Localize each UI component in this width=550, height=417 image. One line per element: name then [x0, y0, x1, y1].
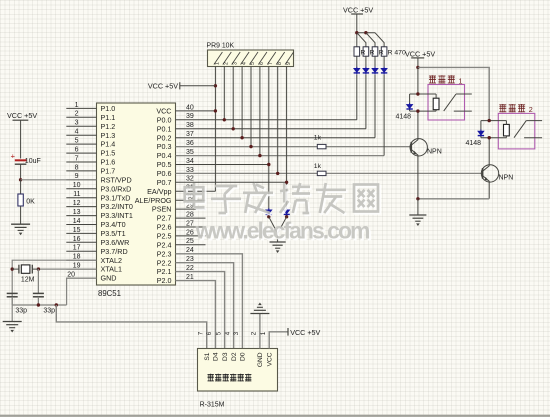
- svg-text:32: 32: [186, 176, 194, 183]
- wire pack pin4 vertical: [241, 67, 243, 138]
- svg-text:4: 4: [241, 62, 247, 65]
- svg-text:VCC +5V: VCC +5V: [343, 6, 373, 15]
- junction pack pin5: [249, 145, 252, 148]
- svg-text:ALE/PROG: ALE/PROG: [135, 196, 172, 205]
- svg-text:P2.5: P2.5: [157, 232, 172, 241]
- svg-text:VCC: VCC: [266, 352, 273, 366]
- wire pack pin1 / VCC / EA net vertical: [214, 67, 216, 192]
- svg-text:6: 6: [75, 147, 79, 154]
- svg-text:GND: GND: [257, 352, 264, 367]
- diode D5: [266, 208, 272, 216]
- resistor R4 label: [388, 50, 406, 57]
- wire pin31 EA/Vpp: [176, 190, 216, 192]
- svg-text:XTAL1: XTAL1: [101, 265, 122, 274]
- svg-text:38: 38: [186, 122, 194, 129]
- wire pin32 P0.7: [176, 181, 287, 183]
- resistor R7 label: [26, 198, 35, 205]
- resistor pack PR9 body: [208, 50, 294, 67]
- capacitor C3 label 10uF: [25, 158, 41, 165]
- svg-text:8: 8: [277, 62, 283, 65]
- diode D6: [283, 208, 289, 216]
- svg-text:5: 5: [215, 331, 222, 335]
- svg-text:VCC +5V: VCC +5V: [148, 81, 178, 90]
- svg-text:P1.0: P1.0: [101, 104, 116, 113]
- svg-text:9: 9: [286, 62, 292, 65]
- wire relay2 bottom rail: [481, 137, 507, 139]
- wire diode2 bottom lead: [480, 136, 482, 138]
- resistor R6 label 1k: [314, 163, 322, 170]
- svg-text:5: 5: [75, 138, 79, 145]
- wire R2 to LED2: [365, 56, 367, 68]
- wire pack pin7 vertical (P0.5 net): [268, 67, 270, 210]
- transistor Q2 collector: [483, 138, 490, 172]
- junction relay1 top: [416, 92, 419, 95]
- wire GND pin20 route: [67, 278, 97, 305]
- transistor Q1 circle: [410, 139, 427, 156]
- wire pin40 VCC: [176, 110, 216, 112]
- svg-text:P3.3/INT1: P3.3/INT1: [101, 211, 133, 220]
- svg-text:10uF: 10uF: [25, 158, 41, 165]
- wire pin34 P0.5: [176, 164, 269, 166]
- svg-text:2: 2: [529, 105, 533, 114]
- transistor Q1 base bar: [410, 142, 412, 153]
- svg-text:+: +: [11, 152, 16, 161]
- wire relay1 top rail: [410, 93, 437, 95]
- svg-text:2: 2: [251, 331, 258, 335]
- wire pin22 P2.1 to module D3: [176, 272, 225, 349]
- ground (reset): [11, 224, 30, 235]
- svg-text:16: 16: [73, 236, 81, 243]
- wire D6 to ground node: [278, 217, 287, 234]
- wire RST to pin9: [21, 179, 97, 181]
- svg-text:VCC: VCC: [156, 107, 171, 116]
- svg-text:17: 17: [73, 245, 81, 252]
- junction pack pin7: [267, 163, 270, 166]
- relay K1 coil: [433, 98, 439, 110]
- wire pack pin2 vertical: [223, 67, 225, 120]
- power port VCC +5V (module): [288, 328, 321, 337]
- ground (indicator diodes): [270, 242, 286, 253]
- relay K1 box: [428, 85, 465, 121]
- junction VCC label: [214, 84, 217, 87]
- wire diag to R3: [366, 33, 375, 47]
- junction emitters: [416, 197, 419, 200]
- svg-text:R-315M: R-315M: [200, 401, 225, 408]
- wire LED3 column down: [374, 75, 376, 138]
- svg-text:6: 6: [206, 331, 213, 335]
- wire VCC label to pack vertical: [180, 85, 216, 87]
- wire VCC stem to R1: [356, 14, 358, 47]
- svg-text:R: R: [370, 50, 375, 57]
- wire relay1 vertical: [417, 67, 419, 94]
- junction rail a: [355, 31, 358, 34]
- relay K2 coil: [504, 124, 510, 135]
- svg-text:www.elecfans.com: www.elecfans.com: [195, 218, 370, 244]
- svg-text:9: 9: [75, 173, 79, 180]
- svg-text:VCC +5V: VCC +5V: [290, 328, 320, 337]
- junction relay2 bottom: [488, 136, 491, 139]
- image bottom border: [0, 415, 550, 417]
- transistor Q2 emitter arrow: [484, 177, 488, 181]
- crystal label 12M: [21, 276, 35, 283]
- wire pin30 ALE stub: [176, 199, 206, 201]
- svg-text:P2.2: P2.2: [157, 258, 172, 267]
- wire relay rail to relay2: [418, 67, 489, 120]
- transistor Q1 emitter: [411, 150, 418, 199]
- svg-text:2: 2: [75, 111, 79, 118]
- svg-text:XTAL2: XTAL2: [101, 256, 122, 265]
- transistor Q2 circle: [481, 165, 498, 182]
- resistor R4 470 body: [381, 47, 387, 56]
- crystal X1 12M: [12, 265, 38, 274]
- svg-text:R: R: [361, 50, 366, 57]
- IC U1 89C51 body: [97, 103, 176, 285]
- resistor pack diagonal elements: [214, 52, 294, 65]
- svg-text:NPN: NPN: [499, 175, 514, 182]
- svg-text:12M: 12M: [21, 276, 35, 283]
- LED D3: [372, 67, 378, 75]
- svg-text:P3.0/RxD: P3.0/RxD: [101, 184, 132, 193]
- wire pack pin9 vertical (P0.7 net): [286, 67, 288, 210]
- module label text: [208, 374, 252, 382]
- wire pin27 P2.6 stub: [176, 226, 206, 228]
- wire LED1 column down: [356, 75, 358, 120]
- svg-text:4: 4: [75, 129, 79, 136]
- svg-text:P1.3: P1.3: [101, 131, 116, 140]
- wire diag to R2: [357, 33, 366, 47]
- svg-text:P2.4: P2.4: [157, 240, 172, 249]
- svg-text:P0.4: P0.4: [157, 151, 172, 160]
- wire R7 to ground: [20, 206, 22, 224]
- wire pin36 P0.3 to Q1 base: [176, 146, 412, 148]
- svg-text:P1.1: P1.1: [101, 113, 116, 122]
- transistor Q1 label NPN: [427, 149, 442, 156]
- svg-text:VCC +5V: VCC +5V: [7, 111, 37, 120]
- diode D7 label 4148: [396, 113, 412, 120]
- resistor R7 10K body: [18, 194, 23, 206]
- svg-text:PSEN: PSEN: [152, 205, 172, 214]
- svg-text:7: 7: [198, 331, 205, 335]
- wire pin35 P0.4 to LED column: [176, 155, 385, 157]
- capacitor C3 10uF: [11, 152, 27, 165]
- svg-text:P1.7: P1.7: [101, 167, 116, 176]
- wire pack pin8 vertical: [277, 67, 279, 174]
- svg-text:P3.6/WR: P3.6/WR: [101, 238, 130, 247]
- wire pin29 PSEN stub: [176, 208, 206, 210]
- wire diode1 top lead: [409, 94, 411, 104]
- svg-text:R: R: [379, 50, 384, 57]
- svg-text:33: 33: [186, 167, 194, 174]
- transistor Q1 emitter arrow: [413, 151, 417, 155]
- wire pin38 P0.1 to LED column: [176, 128, 366, 130]
- svg-text:25: 25: [186, 238, 194, 245]
- svg-text:P3.2/INT0: P3.2/INT0: [101, 202, 133, 211]
- relay K2 switch: [514, 121, 542, 138]
- wire LED4 column down: [383, 75, 385, 156]
- svg-text:35: 35: [186, 149, 194, 156]
- svg-text:4148: 4148: [466, 140, 482, 147]
- wire pin37 P0.2 to LED column: [176, 137, 376, 139]
- module VCC pin wire: [269, 332, 288, 349]
- junction rail S1: [55, 303, 58, 306]
- svg-text:1k: 1k: [314, 134, 322, 141]
- ground (emitters): [409, 215, 426, 226]
- svg-text:14: 14: [73, 218, 81, 225]
- wire relay1 bottom rail: [410, 110, 437, 112]
- resistor R3 470 body: [372, 47, 378, 56]
- LED D1: [354, 67, 360, 75]
- resistor R6 1k body: [317, 171, 326, 175]
- svg-text:7: 7: [75, 155, 79, 162]
- wire VCC stem left: [20, 120, 22, 158]
- svg-text:1: 1: [75, 102, 79, 109]
- wire R1 to LED1: [356, 56, 358, 68]
- svg-text:P3.1/TxD: P3.1/TxD: [101, 193, 131, 202]
- wire relay2 coil bottom lead: [505, 136, 507, 138]
- wire pack pin3 vertical: [232, 67, 234, 129]
- wire D5 to ground node: [269, 217, 278, 234]
- svg-text:1: 1: [260, 331, 267, 335]
- resistor pack PR9 label: [207, 43, 235, 50]
- wire diode2 top lead: [480, 121, 482, 131]
- diode D8 label 4148: [466, 140, 482, 147]
- svg-text:P0.3: P0.3: [157, 142, 172, 151]
- svg-text:18: 18: [73, 254, 81, 261]
- wire relay2 top rail: [481, 120, 507, 122]
- capacitor C1 label 33p: [15, 307, 27, 314]
- svg-text:1: 1: [459, 76, 463, 85]
- diode D7 4148: [406, 103, 412, 111]
- svg-text:P1.2: P1.2: [101, 122, 116, 131]
- junction relay rail: [416, 66, 419, 69]
- resistor R5 label 1k: [314, 134, 322, 141]
- wire XTAL2 route: [12, 260, 96, 305]
- svg-text:1k: 1k: [314, 163, 322, 170]
- relay K1 label: [429, 75, 463, 85]
- IC left pin numbers: [67, 102, 80, 279]
- resistor R1 470 body: [354, 47, 360, 56]
- module R-315M body: [198, 349, 278, 392]
- svg-text:P3.7/RD: P3.7/RD: [101, 247, 128, 256]
- svg-text:P0.6: P0.6: [157, 169, 172, 178]
- svg-text:4: 4: [224, 331, 231, 335]
- junction relay2 top: [488, 119, 491, 122]
- wire R3 to LED3: [374, 56, 376, 68]
- wire pin21 P2.0 to module D4: [176, 281, 216, 349]
- svg-text:P0.2: P0.2: [157, 133, 172, 142]
- svg-text:34: 34: [186, 158, 194, 165]
- resistor R1 label: [361, 50, 366, 57]
- IC right pin numbers: [186, 104, 194, 281]
- svg-text:5: 5: [250, 62, 256, 65]
- junction pack pin3: [232, 127, 235, 130]
- svg-text:4148: 4148: [396, 113, 412, 120]
- svg-text:P2.1: P2.1: [157, 267, 172, 276]
- IC left pin wires 1-20: [66, 108, 96, 278]
- wire diag to R4: [375, 33, 384, 47]
- wire pin39 P0.0 to LED column: [176, 119, 357, 121]
- junction D6 cathode: [285, 215, 288, 218]
- transistor Q1 collector: [411, 111, 418, 145]
- power port VCC +5V (left): [7, 111, 37, 120]
- IC left pin names: [101, 104, 133, 283]
- svg-text:P3.5/T1: P3.5/T1: [101, 229, 126, 238]
- svg-text:R 470: R 470: [388, 50, 406, 57]
- junction crystal left: [11, 267, 14, 270]
- IC U1 label 89C51: [98, 289, 121, 298]
- junction pack pin2: [223, 118, 226, 121]
- relay K2 box: [498, 113, 535, 148]
- resistor R2 label: [370, 50, 375, 57]
- power port VCC +5V (pack): [148, 81, 180, 90]
- watermark chinese characters: [185, 183, 380, 215]
- svg-text:11: 11: [73, 191, 80, 198]
- capacitor C2 label 33p: [43, 307, 55, 314]
- svg-text:12: 12: [73, 200, 81, 207]
- svg-text:10: 10: [73, 182, 81, 189]
- svg-text:NPN: NPN: [427, 149, 442, 156]
- wire pin24 P2.3 to module D1: [176, 254, 243, 349]
- capacitor C2 33p: [33, 293, 44, 296]
- svg-text:3: 3: [232, 62, 238, 65]
- svg-text:28: 28: [186, 212, 194, 219]
- antenna ground symbol: [250, 303, 269, 314]
- svg-text:GND: GND: [101, 274, 117, 283]
- wire rail to ground: [11, 305, 13, 321]
- wire C3 to RST junction: [20, 164, 22, 180]
- svg-text:P2.7: P2.7: [157, 214, 172, 223]
- module pin numbers: [198, 331, 267, 335]
- transistor Q2 base bar: [482, 168, 484, 179]
- wire pin28 P2.7 stub: [176, 217, 206, 219]
- wire relay2 coil top lead: [505, 121, 507, 125]
- module GND pin wire: [259, 314, 261, 349]
- svg-text:P0.0: P0.0: [157, 115, 172, 124]
- wire relay1 coil bottom lead: [435, 110, 437, 111]
- svg-text:39: 39: [186, 113, 194, 120]
- svg-text:36: 36: [186, 140, 194, 147]
- svg-text:3: 3: [75, 120, 79, 127]
- svg-text:2: 2: [224, 62, 230, 65]
- wire pin23 P2.2 to module D2: [176, 263, 234, 349]
- junction pack pin9: [285, 181, 288, 184]
- junction crystal right: [37, 267, 40, 270]
- ground (crystal): [3, 322, 22, 333]
- wire S1 route: [56, 305, 206, 349]
- svg-text:33p: 33p: [43, 307, 55, 314]
- svg-text:19: 19: [73, 263, 81, 270]
- power port VCC +5V (relay rail): [405, 49, 435, 58]
- wire VCC stem relay1: [417, 58, 419, 68]
- wire XTAL1 to crystal: [38, 268, 96, 270]
- junction D5 cathode: [267, 215, 270, 218]
- svg-text:37: 37: [186, 131, 194, 138]
- module label R-315M: [200, 401, 225, 408]
- junction pack pin6: [258, 154, 261, 157]
- wire pin25 P2.4 stub: [176, 244, 206, 246]
- wire RST junction to R7: [20, 180, 22, 194]
- svg-text:1: 1: [215, 62, 221, 65]
- svg-text:6: 6: [259, 62, 265, 65]
- resistor pack pin digits: [215, 62, 292, 65]
- power port VCC +5V (LED rail): [343, 6, 373, 15]
- svg-text:P3.4/T0: P3.4/T0: [101, 220, 126, 229]
- svg-text:P0.5: P0.5: [157, 160, 172, 169]
- wire LED2 column down: [365, 75, 367, 129]
- wire VCC rail: [357, 32, 375, 34]
- svg-text:89C51: 89C51: [98, 289, 121, 298]
- module pin labels: [204, 352, 274, 367]
- wire Q2 emitter to Q1 emitter: [418, 198, 489, 200]
- watermark www.elecfans.com: [195, 218, 372, 246]
- svg-text:P0.7: P0.7: [157, 178, 172, 187]
- svg-text:RST/VPD: RST/VPD: [101, 175, 132, 184]
- capacitor C2 leads: [37, 297, 39, 305]
- wire pin33 P0.6 to Q2 base: [176, 172, 483, 174]
- svg-text:D2: D2: [231, 352, 238, 361]
- svg-text:26: 26: [186, 229, 194, 236]
- svg-text:P1.4: P1.4: [101, 140, 116, 149]
- svg-text:40: 40: [186, 104, 194, 111]
- svg-text:3: 3: [233, 331, 240, 335]
- svg-text:D3: D3: [222, 352, 229, 361]
- LED D4: [381, 67, 387, 75]
- wire ground rail: [12, 304, 66, 306]
- junction relay1 bottom: [416, 109, 419, 112]
- svg-text:P2.6: P2.6: [157, 223, 172, 232]
- svg-text:PR9 10K: PR9 10K: [207, 43, 235, 50]
- svg-text:P0.1: P0.1: [157, 124, 172, 133]
- wire emitters to ground: [417, 199, 419, 215]
- svg-text:8: 8: [75, 164, 79, 171]
- resistor R2 470 body: [363, 47, 369, 56]
- transistor Q2 label NPN: [499, 175, 514, 182]
- svg-text:P2.3: P2.3: [157, 249, 172, 258]
- svg-text:13: 13: [73, 209, 81, 216]
- junction rail b: [364, 31, 367, 34]
- svg-text:P2.0: P2.0: [157, 276, 172, 285]
- junction pin40: [214, 109, 217, 112]
- junction RST: [19, 178, 22, 181]
- transistor Q2 emitter: [483, 176, 490, 199]
- svg-text:S1: S1: [204, 352, 211, 360]
- svg-text:33p: 33p: [15, 307, 27, 314]
- svg-text:27: 27: [186, 220, 194, 227]
- svg-text:VCC +5V: VCC +5V: [405, 49, 435, 58]
- wire pin26 P2.5 stub: [176, 235, 206, 237]
- relay K2 label: [499, 104, 533, 114]
- svg-text:15: 15: [73, 227, 81, 234]
- junction rail cap2: [37, 303, 40, 306]
- svg-text:0K: 0K: [26, 198, 35, 205]
- junction pack pin8: [276, 172, 279, 175]
- resistor R5 1k body: [317, 144, 326, 148]
- capacitor C1 leads: [11, 297, 13, 305]
- diode D8 4148: [478, 130, 484, 138]
- svg-text:20: 20: [67, 272, 75, 279]
- svg-text:P1.6: P1.6: [101, 158, 116, 167]
- wire pack pin5 vertical: [250, 67, 252, 147]
- wire diode1 bottom lead: [409, 109, 411, 111]
- wire crystal right down: [37, 269, 39, 293]
- svg-text:P1.5: P1.5: [101, 149, 116, 158]
- wire pack pin6 vertical: [259, 67, 261, 156]
- wire relay1 coil top lead: [435, 94, 437, 98]
- wire ground stem: [277, 234, 279, 243]
- svg-text:D4: D4: [213, 352, 220, 361]
- relay K1 switch: [444, 94, 472, 111]
- svg-text:EA/Vpp: EA/Vpp: [147, 187, 171, 196]
